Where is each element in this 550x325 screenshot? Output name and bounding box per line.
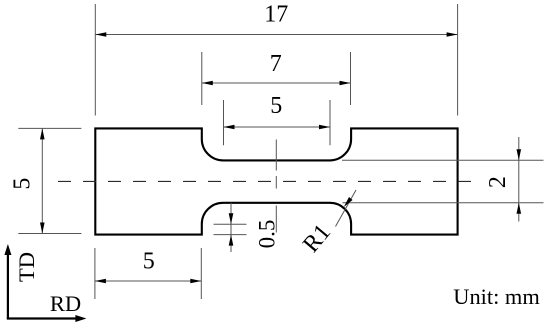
- svg-text:5: 5: [143, 248, 155, 274]
- dim 0.5 extension lines: [214, 223, 247, 225]
- dim 5 left line: [41, 128, 43, 233]
- dim 2 right extension lines: [342, 159, 544, 161]
- dim 5 bottom extension lines: [94, 248, 96, 299]
- svg-text:7: 7: [270, 51, 282, 77]
- R1 leader line: [336, 190, 357, 227]
- horizontal dashed centerline: [58, 180, 471, 182]
- svg-text:Unit: mm: Unit: mm: [453, 284, 540, 309]
- dim 7 line: [202, 82, 351, 84]
- dim 17 extension lines: [94, 4, 96, 116]
- svg-text:RD: RD: [50, 291, 81, 316]
- dim 17 line: [95, 34, 457, 36]
- svg-text:TD: TD: [14, 252, 39, 282]
- R1 arrowhead: [344, 197, 353, 207]
- svg-text:0.5: 0.5: [255, 220, 280, 249]
- dim 5 (gauge) extension lines: [223, 100, 225, 145]
- svg-text:17: 17: [264, 2, 288, 28]
- specimen outline (dog-bone): [95, 128, 457, 234]
- axes TD/RD: [7, 250, 9, 319]
- dim 0.5 line: [230, 203, 232, 252]
- dim 5 (gauge) line: [224, 126, 331, 128]
- dim 5 bottom line: [95, 280, 201, 282]
- svg-text:5: 5: [270, 93, 282, 119]
- dim 2 line: [518, 137, 520, 222]
- svg-text:2: 2: [485, 176, 511, 188]
- svg-text:5: 5: [10, 178, 36, 190]
- dim 5 left extension lines: [18, 127, 81, 129]
- dim 7 extension lines: [201, 52, 203, 105]
- vertical center mark: [275, 140, 277, 171]
